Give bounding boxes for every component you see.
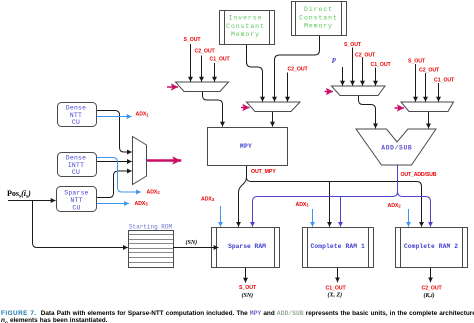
svg-text:Dense: Dense [66,104,86,111]
svg-text:C2_OUT: C2_OUT [195,49,216,55]
svg-text:C1_OUT: C1_OUT [210,57,231,63]
svg-text:(X, Z): (X, Z) [328,292,343,299]
svg-text:MPY: MPY [240,143,252,150]
svg-text:C1_OUT: C1_OUT [326,286,347,292]
svg-text:C1_OUT: C1_OUT [434,78,455,84]
svg-text:Poss(is): Poss(is) [7,189,31,200]
svg-text:Complete RAM 2: Complete RAM 2 [404,243,458,250]
svg-text:ADX1: ADX1 [136,112,150,118]
svg-text:INTT: INTT [68,162,84,169]
svg-text:CU: CU [72,204,80,211]
svg-text:ADX3: ADX3 [201,197,215,203]
svg-text:NTT: NTT [70,197,82,204]
svg-text:Sparse: Sparse [64,189,89,196]
svg-text:C2_OUT: C2_OUT [288,67,309,73]
svg-text:Sparse RAM: Sparse RAM [228,243,266,250]
svg-text:C2_OUT: C2_OUT [419,68,440,74]
svg-text:S_OUT: S_OUT [184,37,202,43]
svg-text:ADX2: ADX2 [388,203,402,209]
svg-text:Dense: Dense [66,154,86,161]
svg-text:Starting ROM: Starting ROM [129,223,173,230]
svg-text:S_OUT: S_OUT [408,59,426,65]
svg-text:OUT_MPY: OUT_MPY [251,169,276,175]
svg-text:(K,i): (K,i) [424,292,435,299]
svg-text:Memory: Memory [304,23,333,30]
svg-text:NTT: NTT [70,112,82,119]
svg-text:C1_OUT: C1_OUT [371,62,392,68]
svg-text:ADX1: ADX1 [296,202,310,208]
svg-text:S_OUT: S_OUT [344,42,362,48]
svg-text:Constant: Constant [299,14,338,21]
svg-text:ADD/SUB: ADD/SUB [381,145,412,152]
svg-text:C2_OUT: C2_OUT [355,53,376,59]
svg-text:ADX2: ADX2 [147,190,161,196]
svg-text:Memory: Memory [231,31,260,38]
svg-text:C2_OUT: C2_OUT [422,286,443,292]
svg-text:Inverse: Inverse [229,15,263,22]
svg-text:Constant: Constant [226,23,265,30]
svg-text:CU: CU [72,169,80,176]
svg-text:Complete RAM 1: Complete RAM 1 [311,243,365,250]
svg-text:CU: CU [72,119,80,126]
svg-text:(SN): (SN) [242,292,254,299]
svg-text:OUT_ADD/SUB: OUT_ADD/SUB [401,172,437,178]
svg-text:ADX3: ADX3 [135,201,149,207]
svg-text:Direct: Direct [304,6,333,13]
svg-text:(SN): (SN) [186,239,198,246]
svg-text:p: p [331,55,336,64]
svg-text:S_OUT: S_OUT [239,285,257,291]
